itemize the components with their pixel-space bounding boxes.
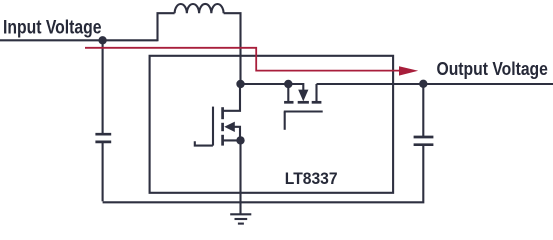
svg-text:LT8337: LT8337 xyxy=(285,169,338,188)
ground xyxy=(230,214,251,223)
transistor Q1 drain stub xyxy=(224,84,241,111)
transistor Q1 gate bar xyxy=(212,107,214,146)
wire inductor right lead to switch node xyxy=(224,13,241,84)
transistor Q2 source stub xyxy=(287,84,289,101)
wire inductor left lead xyxy=(158,13,175,41)
svg-text:Output Voltage: Output Voltage xyxy=(437,58,548,79)
node Q2 source (junction dot) xyxy=(284,80,292,88)
node input (junction dot) xyxy=(98,36,106,44)
wire output rail xyxy=(317,83,553,85)
wire input rail xyxy=(0,39,158,41)
wire C1 bottom lead xyxy=(102,142,104,201)
current path arrowhead (red) xyxy=(399,66,418,75)
transistor Q2 channel segments xyxy=(284,101,321,104)
transistor Q1 body arrow xyxy=(224,122,240,141)
transistor Q1 source stub xyxy=(224,139,241,141)
node Q1 source (junction dot) xyxy=(236,136,244,144)
node output (junction dot) xyxy=(419,80,427,88)
capacitor C1 (input) xyxy=(95,134,111,142)
transistor Q2 drain stub xyxy=(315,84,317,101)
capacitor C2 (output) xyxy=(414,137,434,145)
svg-text:Input Voltage: Input Voltage xyxy=(3,16,102,38)
transistor Q1 gate lead xyxy=(195,141,213,145)
wire ground rail xyxy=(103,145,424,203)
transistor Q2 body arrow xyxy=(288,84,308,101)
transistor Q1 channel segments xyxy=(221,107,224,145)
inductor L1 xyxy=(175,4,224,13)
wire Q1 source to ground xyxy=(239,140,241,213)
wire current path (red) xyxy=(85,48,400,71)
transistor Q2 gate bar xyxy=(284,110,323,112)
node switch (junction dot) xyxy=(236,80,244,88)
IC U1 LT8337 box xyxy=(150,56,394,193)
wire switch rail (switch node to Q2) xyxy=(241,83,289,85)
wire input branch down to C1 xyxy=(102,40,104,134)
transistor Q2 gate lead xyxy=(284,112,286,130)
wire C2 top lead xyxy=(422,84,424,137)
